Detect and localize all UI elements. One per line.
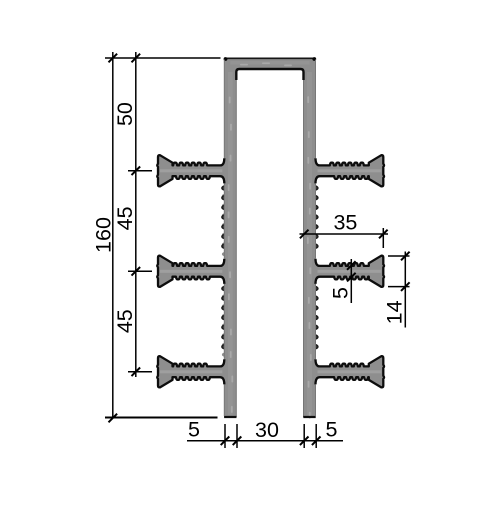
svg-text:5: 5 (188, 417, 200, 441)
svg-text:5: 5 (328, 287, 352, 299)
svg-text:160: 160 (91, 217, 115, 253)
svg-text:5: 5 (326, 417, 338, 441)
svg-text:45: 45 (113, 206, 137, 230)
svg-text:45: 45 (113, 309, 137, 333)
svg-text:35: 35 (333, 210, 357, 234)
svg-text:14: 14 (382, 300, 406, 324)
svg-text:30: 30 (255, 418, 279, 442)
svg-text:50: 50 (113, 102, 137, 126)
